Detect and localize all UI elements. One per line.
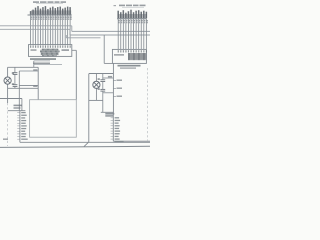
wire XTAL2 pin wire bbox=[19, 84, 38, 86]
crystal X2 stem bbox=[95, 74, 97, 101]
wire net A left segment bbox=[0, 25, 72, 27]
connector J1 rotated pin-name labels bbox=[31, 10, 71, 14]
net label flag 1 bbox=[34, 60, 50, 62]
connector J3 value text bbox=[14, 105, 23, 107]
crystal X1 bbox=[4, 77, 11, 84]
wire XTAL top bbox=[8, 66, 39, 68]
right digital controller U2 box bbox=[112, 49, 146, 63]
wire net B right segment bbox=[70, 34, 150, 36]
connector J3 pins and labels bbox=[17, 112, 20, 114]
wire XTAL1 pin wire bbox=[19, 70, 38, 72]
ground rail left bbox=[0, 98, 22, 100]
label LEFT TRACTION CONTROLLER bbox=[30, 58, 56, 60]
dashed enclosure border left bbox=[7, 103, 9, 146]
U3 pin stub 1 bbox=[113, 79, 116, 81]
U1 part value text bbox=[62, 49, 70, 51]
dashed enclosure border right bbox=[147, 68, 149, 141]
wire net C stub bbox=[65, 35, 67, 38]
wire net A jog bbox=[71, 26, 73, 32]
capacitor C2 bbox=[13, 84, 18, 86]
wire chamfer to rail bbox=[84, 142, 89, 147]
wire into U2 bottom corner bbox=[104, 62, 112, 64]
connector J1 pin numbers bbox=[31, 16, 32, 18]
net label flag 2 bbox=[33, 63, 50, 65]
connector J4 top edge bbox=[101, 111, 114, 113]
wire caps mid to J4 bbox=[102, 100, 104, 112]
title label RIGHT DIGITAL CONTROLLER bbox=[114, 5, 117, 6]
U2 top pin numbers bbox=[118, 50, 119, 52]
left digital controller U1 box bbox=[29, 45, 72, 57]
U3 pin name XTAL1 bbox=[108, 76, 112, 78]
connector J2 rotated pin-name labels bbox=[118, 14, 148, 18]
right bus wires to U2 bbox=[117, 19, 119, 50]
wire XTAL bottom bbox=[8, 87, 39, 89]
capacitor C1 bbox=[13, 72, 18, 74]
connector J4 spine bbox=[112, 112, 114, 141]
ground bus bottom bbox=[0, 146, 150, 147]
wire net C segment bbox=[66, 37, 100, 39]
U2 interior pin hatching bbox=[128, 53, 145, 60]
wire U4 left vertical bbox=[37, 67, 39, 99]
crystal X2 bbox=[93, 81, 100, 88]
U4 pin name XTAL1 bbox=[33, 69, 37, 71]
title label LEFT DIGITAL CONTROLLER bbox=[33, 1, 39, 3]
wire U1 right pin exit bbox=[72, 49, 77, 51]
U1 top pin numbers bbox=[30, 45, 31, 47]
wire XTAL2 bottom bbox=[89, 99, 103, 101]
wire long vertical to bottom rail bbox=[88, 74, 90, 142]
wire X2 pin wire lower bbox=[103, 92, 114, 94]
connector J1 header line bbox=[28, 14, 72, 16]
connector J4 value text bbox=[105, 113, 114, 115]
label RIGHT TRACTION CONTROLLER bbox=[118, 65, 141, 67]
connector J2 header line bbox=[117, 18, 147, 20]
U3 pin stub 2 bbox=[113, 87, 116, 89]
wire X2 pin wire upper bbox=[103, 77, 114, 79]
wire net A right segment bbox=[72, 30, 150, 32]
wire stub down from flags bbox=[33, 61, 35, 67]
connector J3 top edge bbox=[8, 110, 26, 112]
wire XTAL2 top bbox=[89, 73, 114, 75]
wire net B jog bbox=[69, 29, 71, 35]
wire J4 to bottom bus bbox=[113, 140, 150, 142]
U3 pin stub 3 bbox=[113, 95, 116, 97]
wire J3 to bottom bus bbox=[20, 141, 150, 143]
connector J3 spine bbox=[19, 111, 21, 143]
connector J4 pins and labels bbox=[111, 117, 114, 119]
label C1 bbox=[12, 72, 14, 74]
label C3 bbox=[98, 78, 100, 80]
U1 interior pin hatching bbox=[41, 49, 60, 55]
wire rail drop bbox=[21, 99, 23, 111]
U4 pin name XTAL2 bbox=[33, 85, 37, 87]
enclosure outline bbox=[30, 100, 77, 138]
left bus wires to U1 bbox=[30, 15, 32, 45]
wire net B left segment bbox=[0, 28, 70, 30]
wire caps midpoint to ground bbox=[18, 71, 20, 111]
wire net B drop bbox=[103, 35, 105, 63]
label C2 bbox=[12, 83, 14, 85]
capacitor C4 bbox=[100, 88, 105, 90]
wire right-edge vertical bbox=[75, 50, 77, 99]
connector J2 pin numbers bbox=[118, 20, 119, 21]
label GND bbox=[3, 138, 8, 140]
capacitor C3 bbox=[100, 79, 105, 81]
wire crystal left vertical bbox=[7, 67, 9, 103]
label right controller part number bbox=[120, 67, 136, 68]
label C4 bbox=[98, 88, 100, 90]
wire U3 spine bbox=[112, 63, 114, 112]
U2 part value text bbox=[114, 54, 124, 56]
